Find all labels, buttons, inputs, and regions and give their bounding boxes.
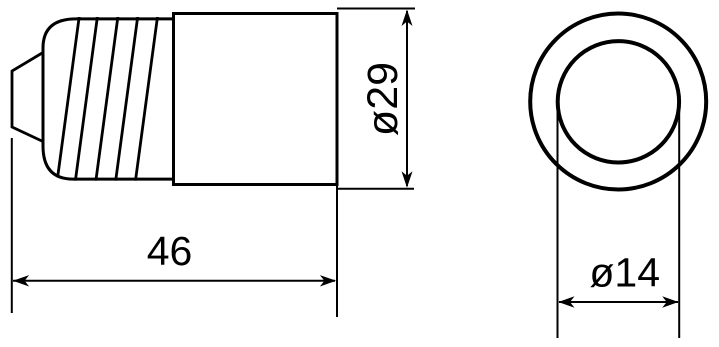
screw body outline — [43, 19, 174, 179]
svg-text:46: 46 — [147, 228, 193, 274]
thread line 3 — [96, 16, 118, 182]
extension line right (46) — [336, 186, 338, 317]
svg-text:ø14: ø14 — [589, 250, 660, 296]
outer circle — [530, 14, 706, 190]
svg-text:ø29: ø29 — [359, 62, 407, 136]
thread line 1 — [57, 16, 158, 182]
arrow up o29 — [402, 10, 413, 27]
cylinder body — [174, 14, 338, 185]
arrow left o14 — [558, 296, 574, 307]
thread line 2 — [75, 16, 97, 182]
thread line 5 — [135, 16, 157, 182]
arrow down o29 — [402, 171, 413, 188]
arrow left 46 — [13, 275, 29, 286]
arrow right 46 — [320, 275, 336, 286]
thread line 4 — [116, 16, 138, 182]
extension line left (o14) — [557, 102, 559, 338]
extension line bottom (o29) — [338, 188, 414, 190]
dimension line o29 — [406, 11, 408, 186]
extension line right (o14) — [678, 102, 680, 338]
contact tip — [12, 53, 44, 143]
arrow right o14 — [662, 296, 678, 307]
extension line top (o29) — [337, 8, 415, 10]
dimension line o14 — [559, 301, 678, 303]
extension line left (46) — [11, 138, 13, 313]
inner circle — [558, 41, 679, 162]
dimension line 46 — [13, 280, 335, 282]
